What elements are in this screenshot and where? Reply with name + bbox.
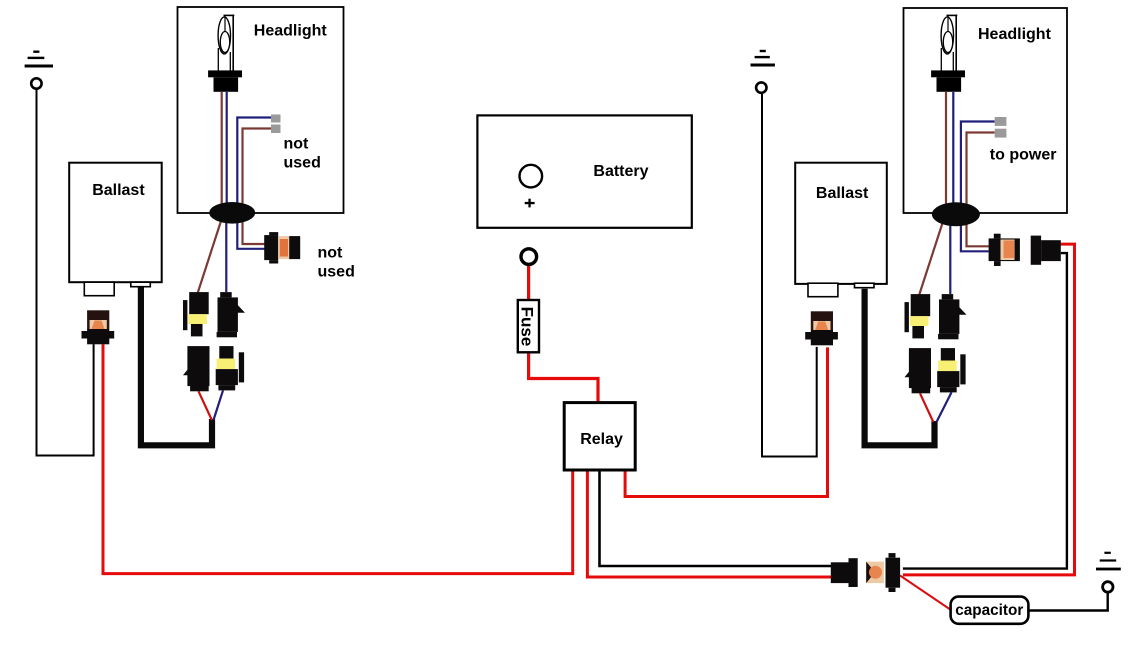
svg-text:Battery: Battery [593,163,648,180]
svg-text:Headlight: Headlight [254,23,328,40]
svg-text:to power: to power [990,147,1057,164]
svg-text:Headlight: Headlight [978,26,1052,43]
svg-text:capacitor: capacitor [955,602,1023,619]
svg-text:not: not [318,244,344,261]
svg-text:Fuse: Fuse [518,307,537,347]
svg-text:used: used [284,154,321,171]
svg-text:Ballast: Ballast [816,185,869,202]
svg-text:not: not [284,136,310,153]
svg-text:Ballast: Ballast [92,182,145,199]
svg-text:Relay: Relay [580,431,623,448]
svg-text:used: used [318,264,355,281]
